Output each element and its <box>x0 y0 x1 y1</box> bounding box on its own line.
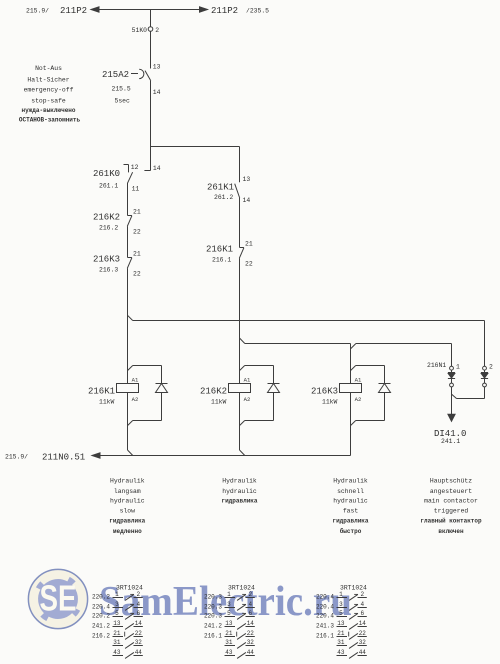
svg-text:241.3: 241.3 <box>316 623 334 630</box>
NC contact 216K1 pins 21-22 <box>206 240 253 267</box>
wire contact 216K3 pin 22 down to coil 216K1 <box>127 268 129 383</box>
svg-text:Halt-Sicher: Halt-Sicher <box>27 76 69 83</box>
svg-text:14: 14 <box>153 165 161 172</box>
contact mirror table 3RT1024 for 216K2 <box>204 585 255 659</box>
table 3 contact row 1-2 <box>337 591 367 600</box>
svg-text:13: 13 <box>337 620 345 627</box>
svg-text:2: 2 <box>360 591 364 598</box>
contact mirror table 3RT1024 for 216K1 <box>92 585 143 659</box>
svg-text:261K0: 261K0 <box>93 169 120 179</box>
svg-text:2: 2 <box>489 363 493 370</box>
svg-text:A2: A2 <box>355 396 362 403</box>
svg-text:216K2: 216K2 <box>93 213 120 223</box>
time-delay contact 215A2 pins 13-14 <box>102 63 161 104</box>
net label 211P2 right with dest ref /235.5 <box>211 6 269 16</box>
NC contact 216K3 pins 21-22 <box>93 250 141 277</box>
svg-text:triggered: triggered <box>434 508 469 515</box>
svg-text:22: 22 <box>359 630 367 637</box>
svg-text:3: 3 <box>227 601 231 608</box>
svg-text:51K0: 51K0 <box>132 27 148 34</box>
svg-text:hydraulic: hydraulic <box>222 488 257 495</box>
diode across coil 216K1 <box>156 383 168 385</box>
svg-text:216.2: 216.2 <box>99 225 118 232</box>
svg-text:215.5: 215.5 <box>112 86 131 93</box>
svg-text:32: 32 <box>359 639 367 646</box>
svg-text:21: 21 <box>225 630 233 637</box>
svg-text:261.1: 261.1 <box>99 183 118 190</box>
svg-text:22: 22 <box>133 271 141 278</box>
svg-text:21: 21 <box>113 630 121 637</box>
net label 211N0.51 with source ref 215.9 <box>5 453 85 463</box>
wire coil 216K2 A2 to bottom bus <box>240 393 245 456</box>
svg-text:216K1: 216K1 <box>206 245 233 255</box>
svg-text:21: 21 <box>133 208 141 215</box>
svg-text:включен: включен <box>438 528 464 535</box>
svg-text:241.2: 241.2 <box>92 623 110 630</box>
changeover contact 261K0 pins 12-11-14 <box>93 164 161 193</box>
svg-text:261.2: 261.2 <box>214 194 233 201</box>
svg-text:A1: A1 <box>355 376 362 383</box>
table 3 contact row 21-22 <box>337 630 367 639</box>
diode across coil 216K3 <box>379 383 391 385</box>
svg-text:main contactor: main contactor <box>424 498 478 505</box>
table 3 contact row 31-32 <box>337 639 367 648</box>
wire contact 261K0 pin 11 to contact 216K2 pin 21 <box>127 183 129 216</box>
svg-text:1: 1 <box>115 591 119 598</box>
svg-text:261K1: 261K1 <box>207 183 234 193</box>
svg-text:220.4: 220.4 <box>316 604 334 611</box>
table 1 contact row 1-2 <box>113 591 143 600</box>
svg-text:stop-safe: stop-safe <box>31 97 66 104</box>
svg-text:216K3: 216K3 <box>93 255 120 265</box>
svg-text:Hydraulik: Hydraulik <box>333 478 368 485</box>
svg-text:43: 43 <box>225 649 233 656</box>
table 2 contact row 3-4 <box>225 601 255 610</box>
svg-text:22: 22 <box>135 630 143 637</box>
svg-text:4: 4 <box>248 601 252 608</box>
svg-text:langsam: langsam <box>114 488 141 495</box>
svg-text:220.4: 220.4 <box>316 594 334 601</box>
svg-text:главный контактор: главный контактор <box>420 517 482 524</box>
svg-text:6: 6 <box>248 610 252 617</box>
table 2 contact row 31-32 <box>225 639 255 648</box>
wire contact 261K1 pin 14 to contact 216K1 pin 21 <box>239 198 241 248</box>
table 2 contact row 21-22 <box>225 630 255 639</box>
table 2 contact row 1-2 <box>225 591 255 600</box>
wire 216N1 outputs joined to cable DI41.0 <box>452 387 485 414</box>
svg-text:A2: A2 <box>244 396 251 403</box>
svg-text:hydraulic: hydraulic <box>333 498 368 505</box>
svg-text:216.2: 216.2 <box>92 633 110 640</box>
svg-text:hydraulic: hydraulic <box>110 498 145 505</box>
svg-text:4: 4 <box>360 601 364 608</box>
wire bus from left chain to terminal 216N1:2 <box>128 315 485 366</box>
svg-text:44: 44 <box>247 649 255 656</box>
svg-text:1: 1 <box>227 591 231 598</box>
svg-text:6: 6 <box>360 610 364 617</box>
svg-text:220.3: 220.3 <box>204 604 222 611</box>
watermark logo SE circle <box>28 569 87 628</box>
top-left function text Not-Aus block <box>19 65 81 124</box>
svg-text:1: 1 <box>339 591 343 598</box>
wire node 51K0 to contact 215A2 pin 13 <box>150 31 152 68</box>
svg-text:211N0.51: 211N0.51 <box>42 453 85 463</box>
svg-text:4: 4 <box>136 601 140 608</box>
svg-text:2: 2 <box>155 27 159 34</box>
svg-text:22: 22 <box>245 261 253 268</box>
svg-text:32: 32 <box>247 639 255 646</box>
svg-text:schnell: schnell <box>337 488 364 495</box>
svg-text:12: 12 <box>131 164 139 171</box>
svg-text:13: 13 <box>113 620 121 627</box>
svg-text:31: 31 <box>113 639 121 646</box>
table 3 contact row 43-44 <box>337 649 367 658</box>
svg-text:slow: slow <box>120 508 136 515</box>
svg-text:241.2: 241.2 <box>204 623 222 630</box>
svg-text:216.1: 216.1 <box>204 633 222 640</box>
svg-text:быстро: быстро <box>340 528 362 535</box>
svg-text:216K1: 216K1 <box>88 386 115 396</box>
wire contact 216K1 pin 22 down to coil 216K2 <box>239 258 241 383</box>
svg-text:220.2: 220.2 <box>92 594 110 601</box>
diode across coil 216K2 <box>268 383 280 385</box>
svg-text:43: 43 <box>337 649 345 656</box>
svg-text:11kW: 11kW <box>211 398 227 405</box>
svg-text:13: 13 <box>225 620 233 627</box>
device label 216N1 <box>427 362 446 369</box>
svg-text:14: 14 <box>247 620 255 627</box>
table 1 contact row 3-4 <box>113 601 143 610</box>
function text column at x=350.5 <box>332 478 368 535</box>
svg-text:11: 11 <box>132 185 140 192</box>
svg-text:2: 2 <box>248 591 252 598</box>
interference suppressor 216N1 terminal 2 <box>481 363 493 387</box>
table 1 contact row 43-44 <box>113 649 143 658</box>
svg-text:3: 3 <box>115 601 119 608</box>
svg-text:14: 14 <box>153 89 161 96</box>
svg-text:1: 1 <box>456 363 460 370</box>
contactor coil 216K3 with suppression diode <box>311 366 391 426</box>
svg-text:гидравлика: гидравлика <box>332 517 368 524</box>
svg-text:медленно: медленно <box>113 528 142 535</box>
svg-text:220.2: 220.2 <box>92 613 110 620</box>
svg-text:5: 5 <box>227 610 231 617</box>
svg-text:5sec: 5sec <box>115 98 131 105</box>
svg-text:5: 5 <box>115 610 119 617</box>
svg-text:216N1: 216N1 <box>427 362 446 369</box>
contact mirror table 3RT1024 for 216K3 <box>316 585 367 659</box>
NC contact 216K2 pins 21-22 <box>93 208 141 235</box>
svg-text:21: 21 <box>245 240 253 247</box>
contactor coil 216K2 with suppression diode <box>200 366 280 426</box>
svg-text:SE: SE <box>40 578 77 619</box>
svg-text:211P2: 211P2 <box>211 6 238 16</box>
svg-text:14: 14 <box>359 620 367 627</box>
wire bus from right chain to 216K3 coil and terminal 216N1:1 <box>240 338 452 384</box>
table 2 contact row 5-6 <box>225 610 255 619</box>
table 1 contact row 5-6 <box>113 610 143 619</box>
svg-text:A1: A1 <box>244 376 251 383</box>
net label 211P2 left with source ref 215.9 <box>26 6 87 16</box>
svg-text:216.1: 216.1 <box>316 633 334 640</box>
table 3 contact row 5-6 <box>337 610 367 619</box>
svg-text:44: 44 <box>135 649 143 656</box>
svg-text:215A2: 215A2 <box>102 70 129 80</box>
function text column at x=127.3 <box>109 478 145 535</box>
svg-text:44: 44 <box>359 649 367 656</box>
contactor coil 216K1 with suppression diode <box>88 366 168 426</box>
svg-text:215.9/: 215.9/ <box>26 8 49 15</box>
svg-text:14: 14 <box>135 620 143 627</box>
svg-text:A2: A2 <box>132 396 139 403</box>
svg-text:14: 14 <box>243 197 251 204</box>
table 2 contact row 43-44 <box>225 649 255 658</box>
svg-text:angesteuert: angesteuert <box>430 488 472 495</box>
svg-text:A1: A1 <box>132 376 139 383</box>
arrow to DI41.0 <box>434 414 466 445</box>
svg-text:241.1: 241.1 <box>441 438 460 445</box>
wire top bus 211P2 <box>91 7 208 12</box>
svg-text:216.1: 216.1 <box>212 257 231 264</box>
table 3 contact row 3-4 <box>337 601 367 610</box>
function text column at x=451.0 <box>420 478 482 535</box>
wire branch to 261K1 at y146 <box>151 146 240 148</box>
svg-text:216K3: 216K3 <box>311 386 338 396</box>
svg-text:220.3: 220.3 <box>204 594 222 601</box>
svg-text:Not-Aus: Not-Aus <box>35 65 62 72</box>
svg-text:215.9/: 215.9/ <box>5 454 28 461</box>
svg-text:Hydraulik: Hydraulik <box>110 478 145 485</box>
interference suppressor 216N1 terminal 1 <box>448 363 460 387</box>
svg-text:Hauptschütz: Hauptschütz <box>430 478 472 485</box>
svg-text:22: 22 <box>133 229 141 236</box>
wire coil 216K3 A2 to bottom bus <box>350 393 352 456</box>
wire contact 216K2 pin 22 to contact 216K3 pin 21 <box>127 226 129 257</box>
svg-text:11kW: 11kW <box>322 398 338 405</box>
svg-text:11kW: 11kW <box>99 398 115 405</box>
svg-text:32: 32 <box>135 639 143 646</box>
svg-text:Hydraulik: Hydraulik <box>222 478 257 485</box>
node 51K0 terminal 2 <box>132 27 160 34</box>
function text column at x=239.5 <box>221 478 257 505</box>
NO contact 261K1 pins 13-14 <box>207 176 250 204</box>
svg-text:emergency-off: emergency-off <box>24 87 74 94</box>
wire coil 216K1 A2 to bottom bus <box>128 393 133 456</box>
svg-text:13: 13 <box>243 176 251 183</box>
svg-text:22: 22 <box>247 630 255 637</box>
wire from top bus down to node 51K0 <box>150 10 152 27</box>
table 3 contact row 13-14 <box>337 620 367 629</box>
svg-text:31: 31 <box>225 639 233 646</box>
svg-text:нужда-выключено: нужда-выключено <box>21 107 75 114</box>
svg-text:220.4: 220.4 <box>92 604 110 611</box>
svg-text:211P2: 211P2 <box>60 6 87 16</box>
svg-text:21: 21 <box>133 250 141 257</box>
svg-text:6: 6 <box>136 610 140 617</box>
svg-text:3: 3 <box>339 601 343 608</box>
wire contact 215A2 pin 14 down to contact 261K0 pin 14 <box>144 81 150 171</box>
svg-text:216.3: 216.3 <box>99 267 118 274</box>
svg-text:гидравлика: гидравлика <box>221 498 257 505</box>
svg-text:21: 21 <box>337 630 345 637</box>
svg-text:216K2: 216K2 <box>200 386 227 396</box>
svg-text:/235.5: /235.5 <box>246 8 269 15</box>
svg-text:43: 43 <box>113 649 121 656</box>
table 1 contact row 31-32 <box>113 639 143 648</box>
table 1 contact row 21-22 <box>113 630 143 639</box>
wire bottom bus 211N0.51 <box>92 453 351 458</box>
svg-text:ОСТАНОВ-запомнить: ОСТАНОВ-запомнить <box>19 117 81 124</box>
table 2 contact row 13-14 <box>225 620 255 629</box>
svg-text:гидравлика: гидравлика <box>109 517 145 524</box>
wire branch down to contact 261K1 pin 13 <box>239 147 241 183</box>
svg-text:2: 2 <box>136 591 140 598</box>
svg-text:220.3: 220.3 <box>204 613 222 620</box>
svg-text:13: 13 <box>153 63 161 70</box>
svg-text:31: 31 <box>337 639 345 646</box>
svg-text:fast: fast <box>343 508 359 515</box>
svg-text:220.4: 220.4 <box>316 613 334 620</box>
table 1 contact row 13-14 <box>113 620 143 629</box>
svg-text:5: 5 <box>339 610 343 617</box>
